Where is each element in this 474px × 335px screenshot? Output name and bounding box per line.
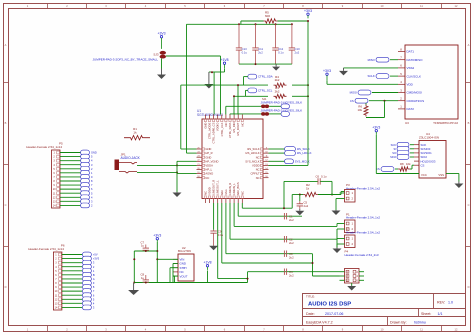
svg-text:CS: CS: [421, 163, 425, 167]
svg-text:CTRL_SCL: CTRL_SCL: [258, 89, 273, 93]
svg-text:NC: NC: [203, 191, 207, 195]
svg-text:NC: NC: [256, 176, 260, 180]
svg-text:JUMPER-PAD-2-NOYES_SILK: JUMPER-PAD-2-NOYES_SILK: [261, 101, 303, 105]
svg-text:D: D: [5, 285, 7, 289]
svg-text:JUMPER-PAD-3-2OF3_NC_BY_TRACE_: JUMPER-PAD-3-2OF3_NC_BY_TRACE_SMALL: [93, 58, 159, 62]
svg-text:VDD: VDD: [407, 83, 414, 87]
svg-text:Header-Female 2.54_1x2: Header-Female 2.54_1x2: [346, 231, 380, 235]
svg-text:DAT0/MISO: DAT0/MISO: [407, 58, 424, 62]
svg-text:MIC: MIC: [220, 190, 224, 195]
svg-text:CTRL_SDA: CTRL_SDA: [258, 75, 273, 79]
svg-text:A: A: [93, 277, 95, 281]
svg-text:HP_L: HP_L: [205, 168, 212, 172]
svg-text:2u2: 2u2: [289, 256, 294, 260]
svg-text:0.1u: 0.1u: [218, 233, 224, 237]
svg-text:2017-07-06: 2017-07-06: [325, 312, 343, 316]
svg-text:1u: 1u: [141, 244, 145, 248]
svg-text:C: C: [468, 203, 470, 207]
svg-text:VDDD: VDDD: [252, 164, 260, 168]
svg-text:VSS: VSS: [438, 173, 444, 177]
svg-text:B: B: [93, 273, 95, 277]
svg-text:VAG: VAG: [224, 189, 228, 194]
svg-text:GND: GND: [205, 147, 211, 151]
svg-text:SJ3: SJ3: [153, 53, 159, 57]
svg-text:B: B: [468, 121, 470, 125]
svg-text:GND: GND: [205, 155, 211, 159]
svg-text:CPFILT: CPFILT: [251, 172, 260, 176]
svg-text:VDDA: VDDA: [205, 164, 213, 168]
svg-text:VDDIO: VDDIO: [216, 123, 220, 132]
svg-text:VDDD: VDDD: [208, 187, 212, 195]
svg-text:NC: NC: [240, 191, 244, 195]
svg-text:VOUT: VOUT: [180, 274, 188, 278]
svg-text:MOSI: MOSI: [350, 91, 357, 95]
svg-text:1/1: 1/1: [438, 312, 443, 316]
svg-text:+1V8: +1V8: [220, 58, 228, 62]
svg-text:LINEIN_R: LINEIN_R: [228, 183, 232, 195]
svg-text:NC: NC: [256, 168, 260, 172]
svg-text:1k: 1k: [133, 130, 137, 134]
svg-text:SCK: SCK: [391, 143, 397, 147]
svg-text:Drawn By:: Drawn By:: [390, 321, 407, 325]
svg-text:I2S_DIN: I2S_DIN: [232, 123, 236, 133]
svg-text:+5V: +5V: [93, 253, 98, 257]
svg-text:CMD/MOSI: CMD/MOSI: [407, 91, 422, 95]
svg-text:I2S_LRCLK: I2S_LRCLK: [245, 151, 259, 155]
svg-text:2k2: 2k2: [275, 90, 280, 94]
svg-text:600: 600: [265, 14, 270, 18]
svg-text:2u2: 2u2: [289, 241, 294, 245]
svg-text:Header-Female 2.54_1x14: Header-Female 2.54_1x14: [26, 145, 62, 149]
svg-text:LINEOUT_R: LINEOUT_R: [212, 180, 216, 195]
svg-text:+3V3: +3V3: [157, 32, 165, 36]
svg-text:AUDIO-JACK: AUDIO-JACK: [121, 156, 141, 160]
svg-text:2u2: 2u2: [289, 274, 294, 278]
svg-text:AGND: AGND: [205, 172, 213, 176]
svg-text:HP_VGND: HP_VGND: [205, 159, 218, 163]
svg-text:hs0nnu: hs0nnu: [414, 321, 426, 325]
svg-text:Header-Female 2.54_1x2: Header-Female 2.54_1x2: [346, 216, 380, 220]
svg-text:Header-Female 2.54_1x14: Header-Female 2.54_1x14: [28, 247, 64, 251]
svg-text:2k2: 2k2: [275, 78, 280, 82]
svg-text:CLK/SCLK: CLK/SCLK: [407, 74, 422, 78]
svg-text:NC: NC: [224, 123, 228, 127]
svg-text:A: A: [5, 43, 7, 47]
svg-text:NC: NC: [205, 176, 209, 180]
svg-text:R8: R8: [400, 162, 404, 166]
svg-text:TITLE:: TITLE:: [306, 295, 315, 299]
svg-text:U3: U3: [405, 121, 409, 125]
svg-text:AUDIO I2S DSP: AUDIO I2S DSP: [308, 302, 351, 308]
svg-text:NC: NC: [256, 155, 260, 159]
svg-text:SYS_MCLK: SYS_MCLK: [295, 159, 310, 163]
svg-text:10k: 10k: [357, 108, 362, 112]
svg-text:SI: SI: [394, 147, 397, 151]
svg-text:+3V3: +3V3: [93, 257, 100, 261]
svg-text:SO: SO: [392, 151, 396, 155]
svg-text:VCC: VCC: [421, 173, 427, 177]
svg-text:+3V3: +3V3: [304, 9, 312, 13]
svg-text:I2S_LRCLK: I2S_LRCLK: [297, 151, 312, 155]
svg-text:CTRL_ADR0_CS: CTRL_ADR0_CS: [212, 122, 216, 143]
svg-text:MISO: MISO: [368, 58, 376, 62]
svg-text:DAT2: DAT2: [407, 107, 415, 111]
svg-text:0.1u: 0.1u: [278, 51, 284, 55]
svg-text:2u2: 2u2: [289, 218, 294, 222]
svg-text:+1V8: +1V8: [203, 261, 211, 265]
svg-text:VSS2: VSS2: [407, 66, 415, 70]
svg-text:Header-Female 2.54_2x3: Header-Female 2.54_2x3: [345, 253, 379, 257]
svg-text:1.0: 1.0: [448, 301, 453, 305]
svg-text:B: B: [5, 121, 7, 125]
svg-text:GND: GND: [203, 123, 207, 129]
svg-text:NC: NC: [240, 123, 244, 127]
svg-text:C6: C6: [316, 174, 320, 178]
svg-text:+3V3: +3V3: [372, 126, 380, 130]
svg-text:0.1u: 0.1u: [242, 51, 248, 55]
svg-text:Date:: Date:: [306, 312, 315, 316]
svg-text:+3V3: +3V3: [323, 69, 331, 73]
svg-text:D: D: [468, 285, 470, 289]
svg-text:I2S_DOUT: I2S_DOUT: [236, 122, 240, 136]
svg-text:LINEOUT_L: LINEOUT_L: [216, 180, 220, 195]
svg-text:LINEIN_L: LINEIN_L: [232, 183, 236, 195]
svg-text:CTRL_MODE: CTRL_MODE: [208, 122, 212, 139]
svg-text:SCLK: SCLK: [367, 74, 374, 78]
svg-text:10k: 10k: [406, 162, 411, 166]
svg-text:Sheet:: Sheet:: [421, 312, 431, 316]
svg-text:BUxxTD9: BUxxTD9: [178, 249, 191, 253]
svg-text:1k: 1k: [306, 187, 310, 191]
svg-text:JUMPER-PAD-2-NOYES_SILK: JUMPER-PAD-2-NOYES_SILK: [261, 108, 303, 112]
svg-text:CD/DAT3/CS: CD/DAT3/CS: [407, 99, 425, 103]
svg-text:MIC_BIAS: MIC_BIAS: [236, 182, 240, 195]
svg-text:A: A: [468, 43, 470, 47]
svg-text:DAT1: DAT1: [407, 50, 415, 54]
svg-text:2u2: 2u2: [258, 51, 263, 55]
svg-text:0.1u: 0.1u: [321, 174, 327, 178]
svg-text:CS: CS: [350, 99, 354, 103]
svg-text:SGTL5000XNAA3: SGTL5000XNAA3: [197, 113, 223, 117]
svg-text:REV:: REV:: [437, 301, 445, 305]
svg-text:C: C: [5, 203, 7, 207]
svg-text:2u2: 2u2: [304, 204, 309, 208]
svg-text:GND: GND: [91, 151, 97, 155]
svg-text:+3V3: +3V3: [153, 234, 161, 238]
svg-text:CTRL_CLK: CTRL_CLK: [220, 122, 224, 136]
svg-text:SIO2: SIO2: [390, 155, 396, 159]
svg-text:1u: 1u: [141, 276, 145, 280]
svg-text:TFMS08TR-PP-02: TFMS08TR-PP-02: [433, 121, 458, 125]
svg-text:Z3LC1004-ISN: Z3LC1004-ISN: [419, 136, 439, 140]
svg-text:EasyEDA V4.7.2: EasyEDA V4.7.2: [306, 321, 333, 325]
svg-text:I2S_SCLK: I2S_SCLK: [247, 147, 260, 151]
svg-text:HP_R: HP_R: [205, 151, 212, 155]
svg-text:2u2: 2u2: [295, 51, 300, 55]
svg-text:SYS_MCLK: SYS_MCLK: [245, 159, 260, 163]
svg-text:CTRL_DATA: CTRL_DATA: [228, 122, 232, 137]
